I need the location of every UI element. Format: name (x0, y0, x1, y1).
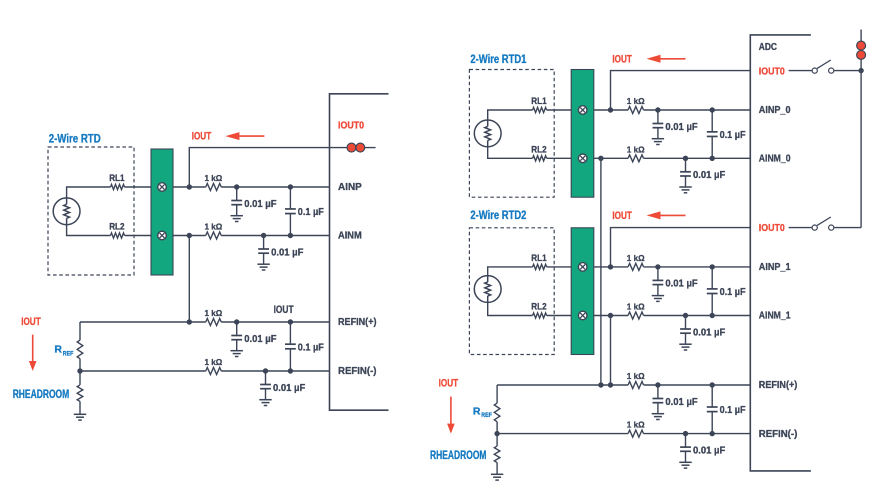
node REFIN- 0.1uF (288, 368, 293, 373)
capacitor 0.01 &#181;F (236, 187, 238, 200)
svg-text:0.01 µF: 0.01 µF (244, 199, 276, 210)
wire REFIN+ row (80, 321, 206, 323)
resistor RL2 (111, 233, 125, 238)
node AINM_1 0.1uF (710, 313, 715, 318)
node REFIN- filter (right) (683, 431, 688, 436)
svg-text:RHEADROOM: RHEADROOM (430, 450, 487, 462)
resistor 1k (AINM_0) (628, 155, 644, 162)
svg-text:IOUT: IOUT (192, 131, 212, 143)
terminal X2 (158, 231, 167, 240)
terminal X1 (RTD2) (578, 263, 587, 272)
svg-text:1 kΩ: 1 kΩ (627, 144, 645, 154)
svg-text:0.1 µF: 0.1 µF (720, 287, 746, 298)
RTD1 sensor element (474, 120, 501, 147)
svg-text:REFIN(+): REFIN(+) (759, 380, 798, 391)
svg-text:1 kΩ: 1 kΩ (205, 222, 223, 232)
svg-text:0.01 µF: 0.01 µF (271, 247, 303, 258)
capacitor 0.01 &#181;F (685, 434, 687, 447)
svg-text:0.01 µF: 0.01 µF (244, 334, 276, 345)
svg-text:REFIN(+): REFIN(+) (338, 317, 377, 328)
arrow IOUT (RTD2) (647, 211, 661, 219)
svg-text:AINM: AINM (338, 231, 362, 242)
resistor RREF (77, 340, 83, 359)
node AINM filter (261, 233, 266, 238)
resistor RL1 (RTD1) (533, 107, 547, 112)
ground (679, 461, 691, 463)
svg-text:IOUT: IOUT (21, 316, 41, 328)
svg-text:2-Wire RTD: 2-Wire RTD (49, 134, 101, 146)
node AINP_0 junction (608, 107, 613, 112)
node AINP_0 0.1uF (710, 107, 715, 112)
resistor 1k (REFIN- right) (628, 430, 644, 437)
node AINM_0 0.1uF (710, 156, 715, 161)
resistor RREF (right) (494, 403, 500, 422)
svg-text:IOUT: IOUT (612, 210, 632, 222)
terminal X1 (RTD1) (578, 106, 587, 115)
terminal block 1 (green) (571, 70, 594, 198)
svg-text:R: R (54, 344, 62, 356)
wire AINM_0 to REFIN+ (600, 158, 602, 385)
ground (231, 215, 243, 217)
wire RTD2 bottom lead (488, 303, 533, 316)
svg-text:0.01 µF: 0.01 µF (665, 122, 697, 133)
wire AINM_0 row (594, 157, 628, 159)
resistor RHEADROOM (right) (494, 446, 500, 463)
node source junction (858, 68, 863, 73)
svg-text:0.01 µF: 0.01 µF (693, 170, 725, 181)
RTD1 enclosure (dashed) (469, 70, 554, 198)
node AINP_1 filter (655, 264, 660, 269)
wire RL2 to terminal (RTD1) (547, 157, 572, 159)
node REFIN- junction (77, 368, 82, 373)
node AINM_0 junction (598, 156, 603, 161)
arrow IOUT down (right) (450, 397, 452, 425)
svg-text:0.01 µF: 0.01 µF (665, 397, 697, 408)
node AINM_1 filter (683, 313, 688, 318)
capacitor 0.1uF AINP_0-AINM_0 (711, 110, 713, 132)
wire IOUT feed (RTD2) (611, 228, 751, 267)
ADC box (left) (330, 94, 389, 410)
node REFIN+ filter (right) (655, 382, 660, 387)
resistor 1k (REFIN+) (206, 319, 222, 326)
svg-text:IOUT0: IOUT0 (759, 223, 785, 234)
ground (652, 295, 664, 297)
capacitor 0.01 &#181;F (265, 371, 267, 384)
resistor 1k (REFIN-) (206, 368, 222, 375)
capacitor 0.1uF REFIN (289, 322, 291, 344)
resistor RL2 (RTD1) (533, 156, 547, 161)
svg-text:2-Wire RTD1: 2-Wire RTD1 (470, 54, 526, 66)
capacitor 0.01 &#181;F (657, 267, 659, 280)
svg-text:1 kΩ: 1 kΩ (205, 357, 223, 367)
svg-text:RL1: RL1 (531, 253, 546, 263)
svg-text:REFIN(-): REFIN(-) (338, 366, 377, 377)
node AINM 0.1uF (288, 233, 293, 238)
svg-text:RL1: RL1 (109, 173, 124, 183)
capacitor 0.1uF AINP_1-AINM_1 (711, 267, 713, 289)
resistor 1k (AINM_1) (628, 312, 644, 319)
wire IOUT feed (189, 148, 329, 187)
RTD2 enclosure (dashed) (469, 228, 554, 355)
node AINP_1 0.1uF (710, 264, 715, 269)
svg-text:1 kΩ: 1 kΩ (627, 420, 645, 430)
svg-text:1 kΩ: 1 kΩ (627, 96, 645, 106)
wire RL1 to terminal (RTD2) (547, 266, 572, 268)
node AINP_1 junction (608, 264, 613, 269)
capacitor 0.01 &#181;F (657, 385, 659, 398)
terminal X1 (158, 183, 167, 192)
svg-text:RL2: RL2 (109, 222, 124, 232)
svg-text:REF: REF (481, 412, 492, 419)
svg-text:REFIN(-): REFIN(-) (759, 429, 798, 440)
svg-text:IOUT: IOUT (274, 304, 294, 316)
node AINM junction (187, 233, 192, 238)
ground (652, 138, 664, 140)
node AINP filter (234, 184, 239, 189)
wire AINP_0 row (594, 109, 628, 111)
ground (259, 399, 271, 401)
svg-text:RL2: RL2 (531, 302, 546, 312)
wire AINP row (173, 186, 206, 188)
wire IOUT feed (RTD1) (611, 71, 751, 110)
node REFIN+ junction A (598, 382, 603, 387)
svg-text:0.1 µF: 0.1 µF (298, 207, 324, 218)
wire REFIN- row (right) (497, 433, 628, 435)
svg-text:0.01 µF: 0.01 µF (665, 279, 697, 290)
wire RTD top lead (67, 187, 111, 198)
resistor 1k (AINP) (206, 184, 222, 191)
ground (257, 263, 269, 265)
ground (RHEADROOM) (74, 413, 86, 415)
svg-text:1 kΩ: 1 kΩ (627, 253, 645, 263)
wire AINM_1 to REFIN+ (610, 316, 612, 386)
node REFIN+ junction (187, 319, 192, 324)
wire AINP_1 row (594, 266, 628, 268)
resistor RHEADROOM (77, 385, 83, 402)
node REFIN- filter (263, 368, 268, 373)
svg-text:IOUT: IOUT (612, 54, 632, 66)
svg-text:AINP_0: AINP_0 (759, 105, 791, 116)
wire RL2 to terminal (RTD2) (547, 315, 572, 317)
wire RTD1 bottom lead (488, 147, 533, 158)
wire RTD bottom lead (67, 225, 111, 236)
svg-text:R: R (473, 405, 481, 417)
wire rail to switch (RTD2) (834, 227, 861, 229)
resistor 1k (AINM) (206, 232, 222, 239)
svg-text:1 kΩ: 1 kΩ (205, 308, 223, 318)
wire IOUT0 to switch (RTD1) (789, 70, 812, 72)
wire RTD1 top lead (488, 110, 533, 120)
svg-text:IOUT: IOUT (439, 377, 459, 389)
wire AINM to REFIN+ (188, 236, 190, 323)
ADC box (right) (750, 35, 811, 471)
capacitor 0.01 &#181;F (236, 322, 238, 335)
resistor RL1 (111, 184, 125, 189)
node AINP 0.1uF (288, 184, 293, 189)
arrow IOUT down (32, 335, 34, 362)
node AINM_1 junction (608, 313, 613, 318)
ground (679, 343, 691, 345)
switch S2 (812, 225, 817, 230)
terminal X2 (RTD1) (578, 154, 587, 163)
wire RL1 to terminal (125, 186, 152, 188)
svg-text:RL1: RL1 (531, 96, 546, 106)
wire switch to source (RTD1) (834, 70, 861, 72)
svg-text:2-Wire RTD2: 2-Wire RTD2 (470, 210, 526, 222)
svg-text:IOUT0: IOUT0 (759, 66, 785, 77)
wire RL1 to terminal (RTD1) (547, 109, 572, 111)
svg-text:0.01 µF: 0.01 µF (693, 327, 725, 338)
svg-text:AINM_1: AINM_1 (759, 311, 791, 322)
svg-text:0.1 µF: 0.1 µF (720, 130, 746, 141)
terminal block (green) (151, 149, 173, 275)
wire IOUT0 to switch (RTD2) (789, 227, 812, 229)
resistor RL1 (RTD2) (533, 264, 547, 269)
terminal X2 (RTD2) (578, 311, 587, 320)
svg-text:ADC: ADC (759, 42, 777, 53)
svg-text:1 kΩ: 1 kΩ (205, 173, 223, 183)
wire RL2 to terminal (125, 235, 152, 237)
RTD sensor element (53, 198, 80, 225)
svg-text:1 kΩ: 1 kΩ (627, 371, 645, 381)
node REFIN+ filter (234, 319, 239, 324)
terminal block 2 (green) (571, 228, 594, 355)
resistor 1k (AINP_0) (628, 107, 644, 114)
RTD enclosure (dashed) (48, 147, 134, 275)
RTD2 sensor element (474, 276, 501, 303)
capacitor 0.01 &#181;F (685, 316, 687, 329)
svg-text:RHEADROOM: RHEADROOM (13, 389, 69, 401)
arrow IOUT (left) (225, 132, 239, 140)
node AINM_0 filter (683, 156, 688, 161)
node REFIN+ 0.1uF (right) (710, 382, 715, 387)
node REFIN- 0.1uF (right) (710, 431, 715, 436)
svg-text:RL2: RL2 (531, 144, 546, 154)
wire REFIN- row (80, 370, 206, 372)
svg-text:AINM_0: AINM_0 (759, 154, 791, 165)
wire current source rail (860, 30, 862, 228)
svg-text:AINP: AINP (338, 182, 362, 193)
capacitor 0.01 &#181;F (263, 236, 265, 249)
ground (652, 413, 664, 415)
ground (RHEADROOM right) (491, 473, 503, 475)
node AINP_0 filter (655, 107, 660, 112)
svg-text:1 kΩ: 1 kΩ (627, 302, 645, 312)
capacitor 0.1uF REFIN right (711, 385, 713, 407)
svg-text:0.1 µF: 0.1 µF (720, 405, 746, 416)
resistor RL2 (RTD2) (533, 313, 547, 318)
svg-text:IOUT0: IOUT0 (338, 121, 364, 132)
capacitor 0.1uF AINP-AINM (289, 187, 291, 209)
wire REFIN+ row (right) (497, 384, 628, 386)
node REFIN+ 0.1uF (288, 319, 293, 324)
capacitor 0.01 &#181;F (657, 110, 659, 123)
capacitor 0.01 &#181;F (685, 158, 687, 171)
wire RTD2 top lead (488, 267, 533, 276)
svg-text:0.01 µF: 0.01 µF (693, 445, 725, 456)
svg-text:REF: REF (63, 351, 74, 358)
arrow IOUT (RTD1) (647, 55, 661, 63)
ground (679, 186, 691, 188)
wire AINM_1 row (594, 315, 628, 317)
wire AINM row (173, 235, 206, 237)
switch S1 (812, 68, 817, 73)
node AINP junction (187, 184, 192, 189)
ground (231, 350, 243, 352)
svg-text:AINP_1: AINP_1 (759, 262, 791, 273)
current source (red circles) (857, 41, 866, 50)
svg-text:0.01 µF: 0.01 µF (273, 383, 305, 394)
svg-text:0.1 µF: 0.1 µF (298, 342, 324, 353)
node REFIN+ junction B (608, 382, 613, 387)
node REFIN- junction (right) (494, 431, 499, 436)
current source IOUT0 (red circles) (347, 143, 356, 152)
resistor 1k (REFIN+ right) (628, 382, 644, 389)
resistor 1k (AINP_1) (628, 263, 644, 270)
